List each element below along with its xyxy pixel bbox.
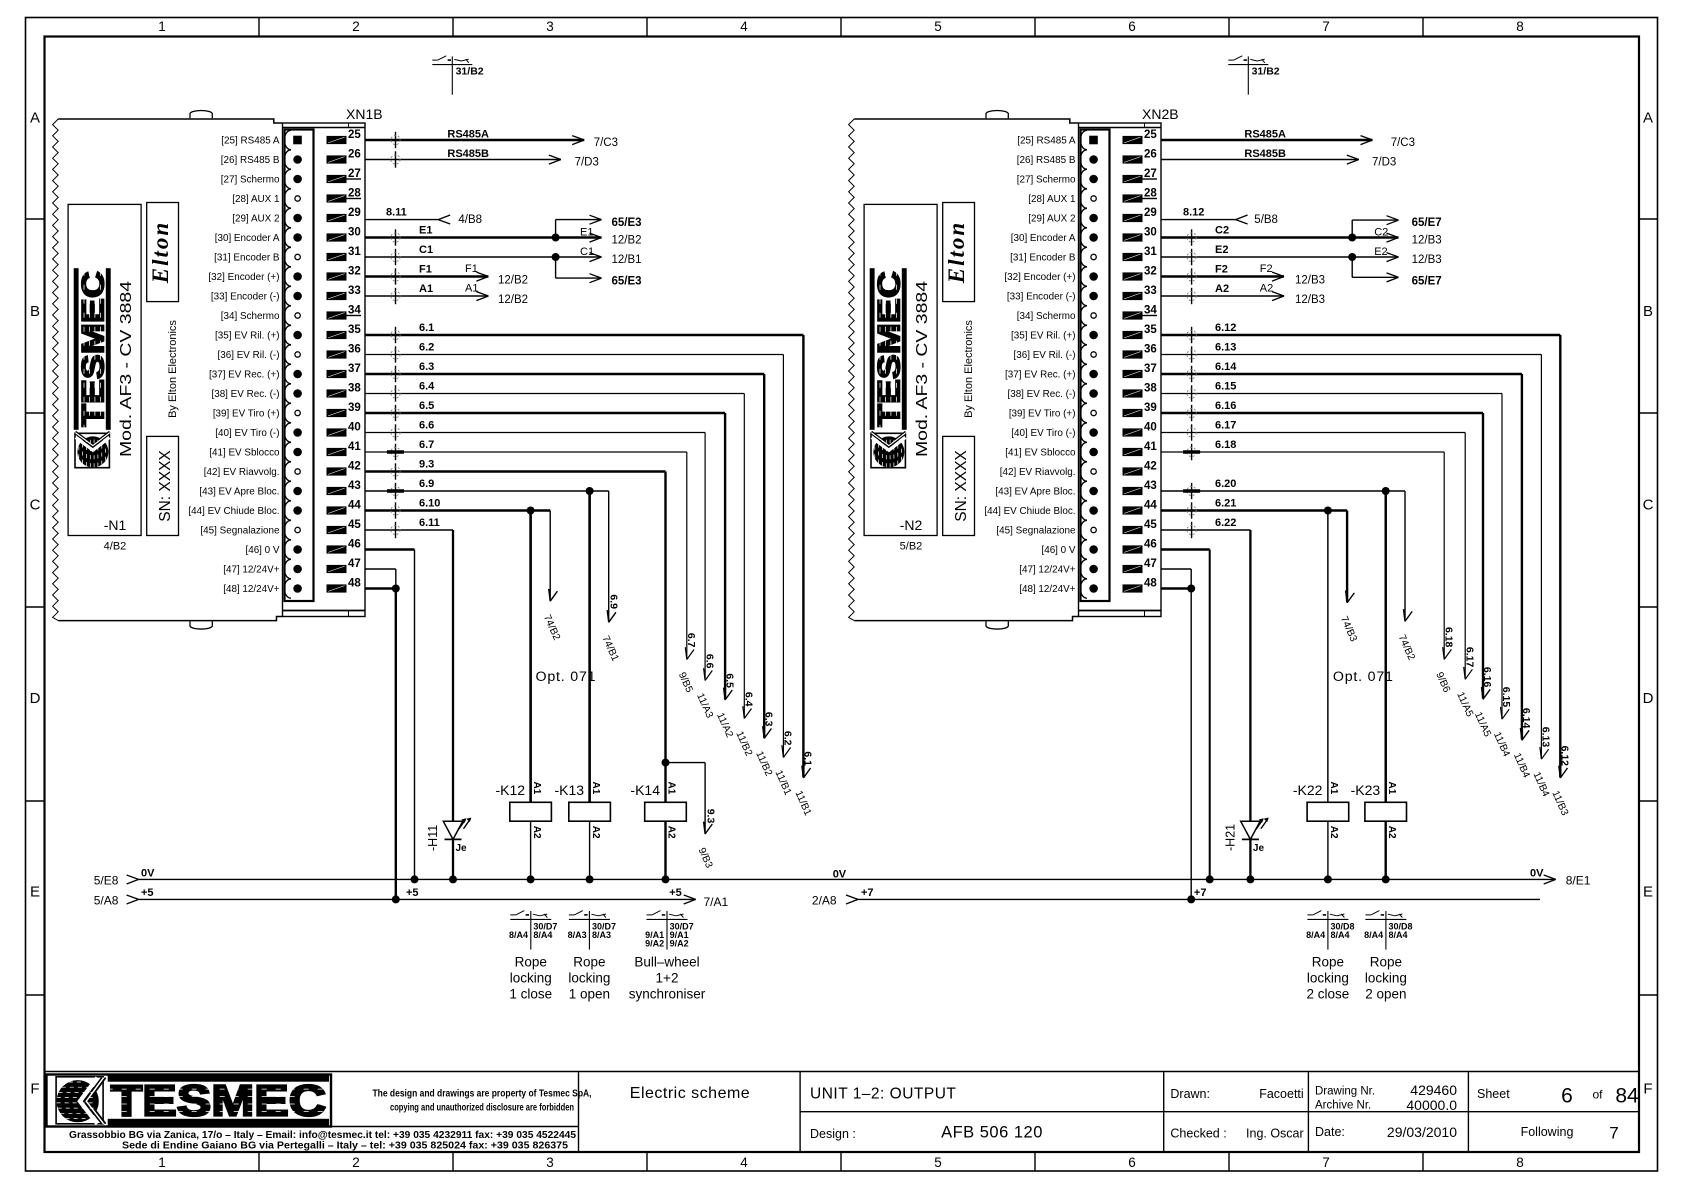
wire K23 A1 drop — [1384, 491, 1386, 802]
terminal XN2B pin 33 — [1123, 292, 1143, 300]
auxiliary contact cross-reference of Rope|locking|1 close — [510, 918, 551, 920]
wire K13 A1 drop — [588, 491, 590, 802]
relay -K13 A1 wire — [588, 491, 590, 802]
svg-text:8/A3: 8/A3 — [592, 930, 611, 940]
svg-text:A1: A1 — [590, 782, 601, 795]
svg-text:41: 41 — [1144, 441, 1157, 453]
svg-text:Opt. 071: Opt. 071 — [1333, 669, 1394, 685]
relay -K23 A2 wire — [1384, 821, 1386, 879]
module -N1 bottom mounting bump — [190, 621, 212, 629]
terminal XN1B pin 47 — [327, 565, 347, 573]
svg-text:6.4: 6.4 — [743, 692, 755, 707]
svg-text:C: C — [30, 497, 41, 514]
svg-text:Rope: Rope — [1312, 955, 1344, 970]
svg-text:copying and unauthorized discl: copying and unauthorized disclosure are … — [390, 1102, 574, 1114]
svg-text:46: 46 — [348, 539, 361, 551]
svg-text:8.11: 8.11 — [386, 207, 407, 219]
TESMEC logo module -N2 — [870, 268, 907, 468]
svg-text:6.3: 6.3 — [419, 361, 434, 373]
node +5 feed junction — [392, 895, 400, 903]
svg-text:26: 26 — [1144, 149, 1157, 161]
svg-text:+7: +7 — [1194, 887, 1207, 899]
connector XN2B pin 43 contact — [1080, 481, 1087, 500]
relay -K23 0V junction — [1382, 875, 1390, 883]
terminal XN2B pin 40 — [1123, 428, 1143, 436]
LED -H11 cathode bar — [445, 838, 462, 840]
svg-text:30: 30 — [348, 227, 361, 239]
node pins 47/48 junction — [392, 585, 400, 593]
wire 6.16 drop to 11/A5 — [1482, 413, 1484, 698]
connector XN1B pin 36 contact — [284, 345, 291, 364]
svg-text:-K12: -K12 — [496, 782, 526, 798]
connector XN1B pin 38 contact — [284, 384, 291, 403]
branch wire C2 to 65/E7 — [1351, 220, 1353, 237]
pin 34 stub wire — [1143, 315, 1158, 317]
svg-text:[38] EV Rec. (-): [38] EV Rec. (-) — [1007, 389, 1075, 400]
terminal XN2B pin 46 — [1123, 545, 1143, 553]
svg-text:6.3: 6.3 — [762, 712, 774, 727]
svg-text:12/B2: 12/B2 — [498, 274, 528, 286]
svg-text:Facoetti: Facoetti — [1259, 1087, 1303, 1101]
terminal XN1B pin 27 — [327, 175, 347, 183]
connector XN2B pin 26 contact — [1080, 150, 1087, 169]
connector XN1B pin 26 contact — [284, 150, 291, 169]
LED -H21 light arrows — [1256, 820, 1263, 830]
terminal XN1B pin 33 — [327, 292, 347, 300]
svg-text:[35] EV Ril. (+): [35] EV Ril. (+) — [215, 330, 279, 341]
connector XN2B pin 45 contact — [1080, 520, 1087, 539]
svg-text:synchroniser: synchroniser — [629, 987, 706, 1002]
svg-text:[27] Schermo: [27] Schermo — [221, 174, 280, 185]
node pins 47/48 right junction — [1187, 585, 1195, 593]
svg-text:39: 39 — [1144, 402, 1157, 414]
svg-text:-K13: -K13 — [555, 782, 585, 798]
svg-text:429460: 429460 — [1410, 1082, 1457, 1098]
terminal XN2B pin 44 — [1123, 506, 1143, 514]
node K14 branch junction — [662, 759, 670, 767]
connector XN2B pin 39 contact — [1080, 403, 1087, 422]
connector XN1B pin 43 contact — [284, 481, 291, 500]
branch wire 9.3 to 9/B3 — [666, 762, 706, 764]
wire 6.18 from XN2B:41 — [1161, 451, 1444, 453]
svg-text:Elton: Elton — [944, 221, 969, 284]
svg-text:+5: +5 — [669, 887, 682, 899]
svg-text:12/B3: 12/B3 — [1412, 254, 1442, 266]
svg-text:TESMEC: TESMEC — [871, 271, 907, 427]
svg-text:35: 35 — [1144, 324, 1157, 336]
pin 34 stub wire — [347, 315, 362, 317]
svg-text:6.16: 6.16 — [1481, 667, 1493, 688]
wire 8.11 from XN1B:29 — [365, 219, 438, 221]
svg-text:Checked :: Checked : — [1170, 1127, 1226, 1141]
node wire46 to 0V junction — [411, 875, 419, 883]
wire 6.13 from XN2B:36 — [1161, 354, 1541, 356]
module -N1 SN box — [147, 436, 179, 535]
wire 6.12 from XN2B:35 — [1161, 334, 1560, 336]
svg-text:6.13: 6.13 — [1540, 727, 1552, 748]
svg-text:[34] Schermo: [34] Schermo — [1017, 311, 1076, 322]
svg-text:[29] AUX 2: [29] AUX 2 — [232, 213, 279, 224]
svg-text:29: 29 — [1144, 207, 1157, 219]
svg-text:25: 25 — [1144, 129, 1157, 141]
svg-text:[30] Encoder A: [30] Encoder A — [215, 233, 280, 244]
connector XN2B pin 41 contact — [1080, 442, 1087, 461]
svg-text:4: 4 — [740, 19, 748, 34]
terminal XN2B pin 27 — [1123, 175, 1143, 183]
terminal XN2B pin 35 — [1123, 331, 1143, 339]
svg-text:1 open: 1 open — [569, 987, 610, 1002]
svg-text:A2: A2 — [1260, 283, 1273, 295]
svg-text:5: 5 — [934, 19, 942, 34]
svg-text:C1: C1 — [580, 246, 594, 258]
svg-text:A1: A1 — [1328, 782, 1339, 795]
wire E1 from XN1B:30 — [365, 236, 602, 238]
svg-text:A2: A2 — [531, 826, 542, 839]
wire 6.2 drop to 11/B1 — [782, 355, 784, 757]
terminal XN2B pin 45 — [1123, 526, 1143, 534]
pin 27 stub wire — [347, 178, 362, 180]
svg-text:2: 2 — [352, 1155, 360, 1170]
svg-text:48: 48 — [348, 578, 361, 590]
connector XN1B pin 32 contact — [284, 267, 291, 286]
svg-text:6.21: 6.21 — [1215, 498, 1236, 510]
terminal XN2B pin 47 — [1123, 565, 1143, 573]
svg-text:5/E8: 5/E8 — [94, 874, 119, 888]
svg-text:31: 31 — [1144, 246, 1157, 258]
svg-text:+5: +5 — [406, 887, 419, 899]
svg-text:[33] Encoder (-): [33] Encoder (-) — [1007, 291, 1076, 302]
terminal XN1B pin 25 — [327, 136, 347, 144]
svg-text:Electric scheme: Electric scheme — [630, 1085, 750, 1102]
connector XN2B pin 33 contact — [1080, 286, 1087, 305]
svg-text:1: 1 — [158, 19, 166, 34]
relay -K14 A1 wire — [664, 763, 666, 803]
connector XN1B pin 37 contact — [284, 364, 291, 383]
svg-text:[31] Encoder B: [31] Encoder B — [214, 252, 280, 263]
connector XN2B pin 32 contact — [1080, 267, 1087, 286]
svg-text:33: 33 — [348, 285, 361, 297]
terminal XN1B pin 29 — [327, 214, 347, 222]
wire 6.5 from XN1B:39 — [365, 412, 725, 414]
wire 6.22 from XN2B:45 to LED H21 — [1161, 529, 1250, 531]
svg-text:8/A4: 8/A4 — [533, 930, 552, 940]
svg-text:6.14: 6.14 — [1520, 708, 1532, 729]
terminal XN1B pin 45 — [327, 526, 347, 534]
terminal XN1B pin 42 — [327, 467, 347, 475]
svg-text:By Elton Electronics: By Elton Electronics — [963, 320, 975, 418]
svg-text:Rope: Rope — [573, 955, 605, 970]
wire F2 from XN2B:32 — [1161, 275, 1284, 277]
wire 6.14 from XN2B:37 — [1161, 373, 1522, 375]
svg-text:6.12: 6.12 — [1559, 746, 1571, 767]
svg-text:locking: locking — [1365, 971, 1407, 986]
svg-text:UNIT 1–2: OUTPUT: UNIT 1–2: OUTPUT — [810, 1086, 956, 1103]
svg-text:43: 43 — [1144, 480, 1157, 492]
connector XN2B pin 42 contact — [1080, 462, 1087, 481]
svg-text:6.12: 6.12 — [1215, 322, 1236, 334]
svg-text:Archive Nr.: Archive Nr. — [1315, 1100, 1371, 1112]
svg-text:42: 42 — [348, 461, 361, 473]
svg-text:A1: A1 — [531, 782, 542, 795]
svg-text:8: 8 — [1516, 1155, 1524, 1170]
svg-text:TESMEC: TESMEC — [75, 271, 111, 427]
svg-text:[32] Encoder (+): [32] Encoder (+) — [208, 272, 279, 283]
svg-text:E: E — [1643, 884, 1653, 901]
svg-text:C2: C2 — [1215, 225, 1229, 237]
connector XN1B housing — [283, 123, 366, 617]
node E2 junction — [1348, 253, 1356, 261]
connector XN2B pin 44 contact — [1080, 501, 1087, 520]
connector XN1B pin 41 contact — [284, 442, 291, 461]
TESMEC logo title block — [56, 1075, 329, 1126]
LED -H11 anode wire — [452, 530, 454, 821]
svg-text:45: 45 — [1144, 519, 1157, 531]
svg-text:6.7: 6.7 — [419, 439, 434, 451]
svg-text:8/E1: 8/E1 — [1566, 874, 1591, 888]
svg-text:E1: E1 — [419, 225, 432, 237]
terminal XN2B pin 43 — [1123, 487, 1143, 495]
svg-text:of: of — [1592, 1088, 1603, 1102]
svg-text:C1: C1 — [419, 244, 433, 256]
svg-text:26: 26 — [348, 149, 361, 161]
svg-text:E2: E2 — [1374, 246, 1387, 258]
terminal XN2B pin 25 — [1123, 136, 1143, 144]
connector XN2B pin 36 contact — [1080, 345, 1087, 364]
svg-text:[27] Schermo: [27] Schermo — [1017, 174, 1076, 185]
grid column ticks top band — [258, 18, 260, 37]
wire 6.21 drop to 74/B3 — [1346, 511, 1348, 602]
svg-text:XN2B: XN2B — [1142, 106, 1179, 122]
svg-text:[29] AUX 2: [29] AUX 2 — [1028, 213, 1075, 224]
terminal XN2B pin 42 — [1123, 467, 1143, 475]
grid column ticks bottom band — [258, 1152, 260, 1171]
svg-text:[46] 0 V: [46] 0 V — [1041, 545, 1075, 556]
wire 6.2 from XN1B:36 — [365, 354, 783, 356]
connector XN2B pin 40 contact — [1080, 423, 1087, 442]
svg-text:1 close: 1 close — [509, 987, 552, 1002]
terminal XN1B pin 48 — [327, 584, 347, 592]
svg-text:E1: E1 — [580, 226, 593, 238]
svg-text:6.6: 6.6 — [419, 420, 434, 432]
svg-text:8: 8 — [1516, 19, 1524, 34]
svg-text:36: 36 — [348, 344, 361, 356]
connector XN1B pin 30 contact — [284, 228, 291, 247]
pin 28 stub wire — [347, 198, 362, 200]
svg-text:6.10: 6.10 — [419, 498, 440, 510]
module -N2 bottom mounting bump — [986, 621, 1008, 629]
wire 6.6 from XN1B:40 — [365, 432, 705, 434]
svg-text:47: 47 — [1144, 558, 1157, 570]
svg-text:-K23: -K23 — [1351, 782, 1381, 798]
svg-text:Sede di Endine Gaiano BG via P: Sede di Endine Gaiano BG via Pertegalli … — [122, 1141, 568, 1152]
svg-text:-H21: -H21 — [1223, 824, 1237, 851]
svg-text:7/D3: 7/D3 — [575, 157, 599, 169]
svg-text:5/B2: 5/B2 — [900, 541, 923, 553]
node +7 feed junction — [1187, 895, 1195, 903]
svg-text:[37] EV Rec. (+): [37] EV Rec. (+) — [209, 369, 280, 380]
connector XN2B inner strip — [1081, 130, 1110, 602]
svg-text:TESMEC: TESMEC — [111, 1078, 326, 1126]
wire 6.7 drop to 9/B5 — [686, 452, 688, 659]
svg-text:+7: +7 — [861, 887, 874, 899]
connector XN2B pin 38 contact — [1080, 384, 1087, 403]
svg-text:65/E7: 65/E7 — [1412, 217, 1442, 229]
svg-text:6.14: 6.14 — [1215, 361, 1237, 373]
svg-text:5/A8: 5/A8 — [94, 894, 119, 908]
svg-text:6.1: 6.1 — [419, 322, 434, 334]
connector XN2B pin 28 contact — [1080, 189, 1087, 208]
terminal XN2B pin 31 — [1123, 253, 1143, 261]
svg-text:47: 47 — [348, 558, 361, 570]
svg-text:-N1: -N1 — [104, 517, 127, 533]
svg-text:Drawn:: Drawn: — [1170, 1087, 1210, 1101]
svg-text:6.16: 6.16 — [1215, 400, 1236, 412]
svg-text:Sheet: Sheet — [1477, 1087, 1510, 1101]
wire 6.9 drop to 74/B1 — [608, 491, 610, 621]
svg-text:6.17: 6.17 — [1463, 647, 1475, 668]
wire 0V from XN2B:46 — [1161, 548, 1210, 550]
svg-text:B: B — [1643, 303, 1653, 320]
connector XN1B pin 25 contact — [284, 130, 291, 149]
svg-text:38: 38 — [1144, 383, 1157, 395]
svg-text:locking: locking — [510, 971, 552, 986]
LED -H11 light arrows — [459, 820, 466, 830]
svg-text:29: 29 — [348, 207, 361, 219]
svg-text:Grassobbio BG via Zanica, 17: Grassobbio BG via Zanica, 17/o – Italy –… — [69, 1130, 576, 1141]
svg-text:[42] EV Riavvolg.: [42] EV Riavvolg. — [1000, 467, 1076, 478]
wire 6.15 drop to 11/B4 — [1501, 394, 1503, 719]
auxiliary contact cross-reference of Rope|locking|1 open — [569, 918, 610, 920]
svg-text:Mod. AF3 - CV 3884: Mod. AF3 - CV 3884 — [118, 281, 135, 457]
svg-text:[25] RS485 A: [25] RS485 A — [1017, 135, 1076, 146]
connector XN1B pin 46 contact — [284, 540, 291, 559]
svg-text:6.15: 6.15 — [1500, 687, 1512, 708]
grid row ticks right band — [1639, 218, 1658, 220]
wire 6.1 from XN1B:35 — [365, 334, 803, 336]
svg-text:8/A3: 8/A3 — [568, 930, 587, 940]
wire 6.7 from XN1B:41 — [365, 451, 687, 453]
terminal XN2B pin 37 — [1123, 370, 1143, 378]
svg-text:F2: F2 — [1260, 263, 1273, 275]
terminal XN1B pin 38 — [327, 389, 347, 397]
connector XN1B pin 33 contact — [284, 286, 291, 305]
svg-text:Rope: Rope — [515, 955, 547, 970]
relay -K14 A2 wire — [664, 821, 666, 879]
wire 0V from XN1B:46 — [365, 548, 415, 550]
svg-text:6.11: 6.11 — [419, 517, 440, 529]
terminal XN1B pin 43 — [327, 487, 347, 495]
module -N1 body outline — [53, 119, 59, 621]
svg-text:[25] RS485 A: [25] RS485 A — [221, 135, 280, 146]
terminal XN1B pin 40 — [327, 428, 347, 436]
svg-text:45: 45 — [348, 519, 361, 531]
svg-text:A1: A1 — [1386, 782, 1397, 795]
wire 6.17 from XN2B:40 — [1161, 432, 1465, 434]
svg-text:E: E — [30, 884, 40, 901]
svg-text:6.9: 6.9 — [608, 594, 620, 609]
wire 6.12 drop to 11/B3 — [1559, 335, 1561, 777]
node K12 junction — [527, 507, 535, 515]
svg-text:7/D3: 7/D3 — [1372, 157, 1396, 169]
LED -H11 0V junction — [449, 875, 457, 883]
svg-text:F2: F2 — [1215, 264, 1228, 276]
terminal XN2B pin 38 — [1123, 389, 1143, 397]
svg-text:F: F — [30, 1081, 39, 1098]
svg-text:[37] EV Rec. (+): [37] EV Rec. (+) — [1005, 369, 1076, 380]
svg-text:[39] EV Tiro (+): [39] EV Tiro (+) — [1009, 408, 1076, 419]
svg-text:locking: locking — [1307, 971, 1349, 986]
relay coil -K12 — [510, 802, 552, 821]
wire 6.10 drop to 74/B2 — [549, 511, 551, 601]
module -N2 body outline — [849, 119, 855, 621]
node E1 junction — [552, 234, 560, 242]
svg-text:6.4: 6.4 — [419, 381, 435, 393]
svg-text:42: 42 — [1144, 461, 1157, 473]
svg-text:Ing. Oscar: Ing. Oscar — [1246, 1127, 1304, 1141]
svg-text:40: 40 — [1144, 422, 1157, 434]
wire RS485B from XN2B:26 — [1161, 159, 1359, 161]
title block horizontal dividers — [45, 1126, 579, 1128]
svg-text:[45] Segnalazione: [45] Segnalazione — [996, 525, 1076, 536]
wire 12/24V+ from XN2B:48 — [1161, 587, 1191, 589]
svg-text:[28] AUX 1: [28] AUX 1 — [1028, 194, 1076, 205]
node K13 junction — [586, 487, 594, 495]
connector XN2B pin 47 contact — [1080, 559, 1087, 578]
svg-text:Date:: Date: — [1315, 1125, 1345, 1139]
wire 6.10 from XN1B:44 — [365, 509, 550, 511]
svg-text:A1: A1 — [465, 283, 478, 295]
svg-text:25: 25 — [348, 129, 361, 141]
svg-text:43: 43 — [348, 480, 361, 492]
auxiliary contact cross-reference of Bull–wheel|1+2|synchroniser — [647, 918, 688, 920]
wire 6.14 drop to 11/B4 — [1521, 374, 1523, 739]
svg-text:A2: A2 — [590, 826, 601, 839]
+7 rail — [858, 898, 1540, 900]
svg-text:5/B8: 5/B8 — [1254, 214, 1278, 226]
svg-text:6.13: 6.13 — [1215, 342, 1236, 354]
svg-text:SN: XXXX: SN: XXXX — [953, 450, 970, 522]
svg-text:[30] Encoder A: [30] Encoder A — [1011, 233, 1076, 244]
svg-text:Bull–wheel: Bull–wheel — [634, 955, 699, 970]
svg-text:2 open: 2 open — [1365, 987, 1406, 1002]
terminal XN2B pin 39 — [1123, 409, 1143, 417]
module -N1 top mounting bump — [190, 111, 212, 119]
svg-text:4: 4 — [740, 1155, 748, 1170]
svg-text:[26] RS485 B: [26] RS485 B — [221, 155, 280, 166]
wire 6.11 from XN1B:45 to LED H11 — [365, 529, 453, 531]
svg-text:[31] Encoder B: [31] Encoder B — [1010, 252, 1076, 263]
svg-text:Opt. 071: Opt. 071 — [536, 669, 597, 685]
terminal XN2B pin 29 — [1123, 214, 1143, 222]
terminal XN1B pin 36 — [327, 350, 347, 358]
svg-text:E2: E2 — [1215, 244, 1228, 256]
relay -K23 A1 wire — [1384, 491, 1386, 802]
wire A1 from XN1B:33 — [365, 295, 488, 297]
connector XN2B pin 37 contact — [1080, 364, 1087, 383]
svg-text:6: 6 — [1128, 1155, 1136, 1170]
svg-text:AFB 506 120: AFB 506 120 — [941, 1124, 1043, 1142]
wire A2 from XN2B:33 — [1161, 295, 1284, 297]
wire 6.20 from XN2B:43 — [1161, 490, 1405, 492]
svg-text:32: 32 — [1144, 266, 1157, 278]
wire RS485B from XN1B:26 — [365, 159, 561, 161]
svg-text:8/A4: 8/A4 — [1306, 930, 1325, 940]
svg-text:Drawing Nr.: Drawing Nr. — [1315, 1086, 1375, 1098]
svg-text:[40] EV Tiro (-): [40] EV Tiro (-) — [1011, 428, 1075, 439]
svg-text:33: 33 — [1144, 285, 1157, 297]
module -N2 label box — [864, 204, 937, 535]
svg-text:1: 1 — [158, 1155, 166, 1170]
